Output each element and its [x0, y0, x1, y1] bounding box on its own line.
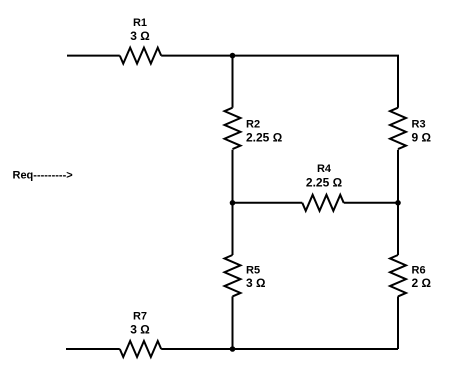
- wire left vertical from top node to R2: [232, 56, 234, 108]
- svg-text:3 Ω: 3 Ω: [130, 29, 150, 43]
- node right middle junction: [395, 200, 401, 206]
- svg-text:3 Ω: 3 Ω: [130, 323, 150, 337]
- resistor R2: [225, 108, 283, 149]
- wire top from R1 to right corner and down to R3: [161, 56, 398, 108]
- svg-text:2 Ω: 2 Ω: [412, 276, 432, 290]
- wire right vertical middle node to R6: [397, 203, 399, 255]
- resistor R5: [225, 255, 266, 296]
- wire middle from left node to R4: [233, 202, 303, 204]
- svg-text:R5: R5: [246, 265, 260, 277]
- svg-text:3 Ω: 3 Ω: [246, 276, 266, 290]
- resistor R6: [390, 255, 431, 296]
- resistor R7: [120, 311, 161, 358]
- node left middle junction: [230, 200, 236, 206]
- wire left vertical R5 down to bottom node: [232, 296, 234, 349]
- wire middle from R4 to right node: [344, 202, 398, 204]
- resistor R4: [302, 163, 343, 211]
- svg-text:2.25 Ω: 2.25 Ω: [306, 176, 343, 190]
- node bottom junction: [230, 346, 236, 352]
- svg-text:R7: R7: [133, 311, 147, 323]
- wire top-left lead: [67, 55, 120, 57]
- wire right vertical R3 to middle node: [397, 150, 399, 203]
- svg-text:R6: R6: [412, 265, 426, 277]
- resistor R1: [120, 17, 161, 64]
- svg-text:Req--------->: Req--------->: [13, 170, 73, 182]
- wire bottom-left lead: [66, 348, 120, 350]
- svg-text:R3: R3: [412, 119, 426, 131]
- svg-text:R4: R4: [317, 163, 332, 175]
- wire right vertical R6 down to bottom corner: [397, 296, 399, 349]
- svg-text:2.25 Ω: 2.25 Ω: [246, 131, 283, 145]
- node top junction: [230, 53, 236, 59]
- wire left vertical R2 to middle node: [232, 150, 234, 203]
- wire bottom from R7 to right corner: [161, 348, 398, 350]
- svg-text:R1: R1: [133, 17, 147, 29]
- wire left vertical middle node to R5: [232, 203, 234, 255]
- svg-text:9 Ω: 9 Ω: [412, 131, 432, 145]
- resistor R3: [390, 108, 431, 149]
- svg-text:R2: R2: [246, 119, 260, 131]
